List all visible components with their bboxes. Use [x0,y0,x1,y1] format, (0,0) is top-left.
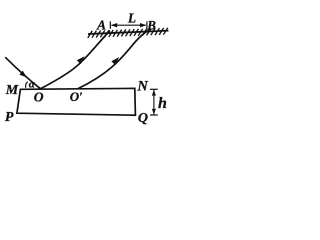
h dimension: top bar [150,88,158,90]
svg-text:O: O [34,90,44,105]
svg-text:P: P [5,110,14,125]
svg-text:M: M [5,83,19,98]
svg-text:Q: Q [138,111,148,126]
svg-text:A: A [96,17,106,32]
h dimension: top arrowhead [152,90,156,96]
dimension L: right tick [146,21,148,29]
svg-text:O′: O′ [70,89,83,104]
dimension L: arrow line [112,24,146,26]
dimension L: left tick [109,21,111,29]
h dimension: bottom bar [150,114,158,116]
incident ray arrowhead [19,71,26,78]
arrowhead on ray OA [77,56,85,64]
dimension L: right arrowhead [140,23,146,27]
angle alpha arc [26,82,28,88]
reflected ray O' to B [78,29,151,88]
dimension L: left arrowhead [111,23,117,27]
h dimension: vertical line [153,90,155,115]
slab rectangle MNQP [17,88,135,115]
incident ray to O [5,57,40,89]
ceiling hatching [88,28,168,38]
svg-text:h: h [158,95,167,112]
arrowhead on ray O'B [111,57,119,65]
reflected ray O to A [41,31,111,89]
ceiling line AB [88,31,169,34]
svg-text:N: N [136,78,148,94]
svg-text:L: L [127,11,136,26]
h dimension: bottom arrowhead [152,109,156,115]
